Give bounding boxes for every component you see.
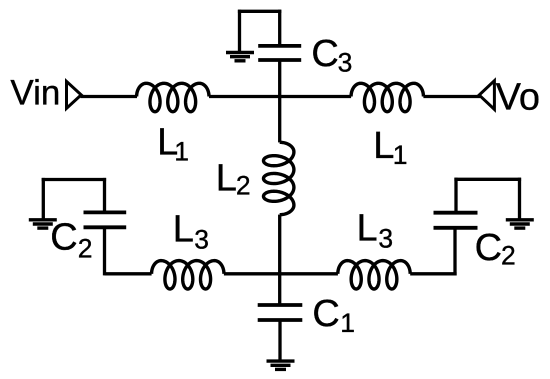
svg-text:2: 2 — [236, 170, 251, 200]
wire C2 left top plate up — [103, 178, 106, 213]
ground (C1 branch) — [267, 361, 295, 369]
wire C3 loop left drop to ground — [238, 10, 241, 53]
svg-text:3: 3 — [194, 224, 209, 254]
inductor L1 (right) — [351, 83, 423, 111]
svg-text:1: 1 — [393, 140, 408, 170]
wire C2 right top plate up — [454, 178, 457, 213]
ground (C3 branch) — [226, 53, 254, 61]
svg-text:C: C — [475, 227, 502, 269]
capacitor C2 right bottom plate — [434, 226, 478, 230]
svg-text:Vo: Vo — [496, 76, 540, 118]
wire node B to L3 right — [280, 272, 338, 275]
svg-text:C: C — [50, 216, 77, 258]
svg-text:L: L — [373, 125, 394, 167]
inductor L1 (left) — [137, 83, 209, 111]
svg-text:Vin: Vin — [10, 74, 60, 113]
capacitor C1 bottom plate — [258, 318, 303, 322]
svg-text:L: L — [216, 158, 237, 200]
capacitor C3 bottom plate — [258, 58, 301, 62]
svg-text:2: 2 — [78, 234, 93, 264]
wire L3 right to C2 right — [410, 272, 456, 275]
wire Vin to L1 left — [81, 95, 138, 98]
svg-text:L: L — [357, 208, 378, 250]
wire node A down to L2 — [278, 97, 281, 143]
input terminal triangle (Vin port) — [67, 81, 82, 108]
inductor L3 (right) — [338, 261, 410, 289]
wire node B down to C1 — [278, 274, 281, 305]
wire C3 loop top — [238, 10, 281, 13]
inductor L2 (vertical) — [264, 142, 294, 214]
svg-text:3: 3 — [338, 47, 353, 77]
svg-text:L: L — [173, 208, 194, 250]
wire center node A to L1 right — [280, 95, 351, 98]
svg-text:3: 3 — [378, 224, 393, 254]
wire L1 left to center node A — [209, 95, 280, 98]
inductor L3 (left) — [152, 261, 224, 289]
ground (C2 right branch) — [506, 220, 534, 228]
svg-text:C: C — [312, 293, 339, 335]
output terminal triangle (Vo port) — [479, 81, 494, 110]
capacitor C3 top plate — [258, 44, 301, 48]
wire C1 bottom plate to ground — [278, 320, 281, 361]
wire C2 right loop top — [454, 178, 521, 181]
wire bottom left to L3 left — [105, 272, 152, 275]
wire C2 left loop drop to ground — [42, 178, 45, 220]
capacitor C2 right top plate — [434, 211, 478, 215]
wire C3 top plate up — [278, 10, 281, 46]
svg-text:1: 1 — [340, 308, 355, 338]
wire C2 right bottom plate down — [453, 228, 456, 276]
wire C3 bottom plate to node A — [278, 60, 281, 98]
wire L2 to bottom node B — [278, 215, 281, 274]
capacitor C2 left bottom plate — [84, 225, 127, 229]
wire C2 left bottom plate down — [103, 227, 106, 275]
svg-text:C: C — [311, 33, 338, 75]
wire L3 left to node B — [224, 272, 280, 275]
svg-text:2: 2 — [501, 241, 516, 271]
wire C2 right loop drop to ground — [518, 178, 521, 220]
capacitor C2 left top plate — [84, 210, 127, 214]
ground (C2 left branch) — [29, 220, 57, 228]
wire C2 left loop top — [42, 178, 106, 181]
svg-text:1: 1 — [174, 137, 189, 167]
capacitor C1 top plate — [258, 303, 303, 307]
wire L1 right to Vo — [423, 95, 480, 98]
